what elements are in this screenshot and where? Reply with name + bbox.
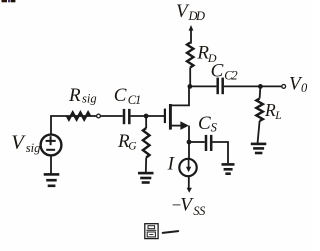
label V_sig	[11, 132, 40, 155]
node V_0 terminal	[282, 85, 286, 89]
ground V_sig	[44, 174, 60, 185]
source V_sig	[41, 135, 62, 156]
node source junction	[187, 140, 192, 145]
svg-text:C: C	[198, 113, 211, 134]
wire R_L bottom	[258, 121, 260, 144]
label R_L	[264, 100, 282, 122]
label -V_SS	[171, 195, 207, 219]
wire junction to C_C1	[100, 115, 122, 117]
node R_L junction	[258, 84, 263, 89]
transistor Q1 gate bar	[164, 109, 166, 124]
label V_0	[289, 74, 308, 96]
transistor Q1 drain lead	[170, 86, 189, 105]
node gate junction	[144, 114, 149, 119]
label C_C1	[114, 85, 140, 107]
wire C_C1 to gate	[131, 115, 165, 117]
svg-text:DD: DD	[188, 9, 206, 23]
wire C_C2 to output terminal	[224, 85, 282, 87]
wire R_G bottom	[145, 158, 147, 173]
wire R_L top	[259, 86, 262, 98]
scan artifact top-left	[2, 0, 16, 2]
svg-text:S: S	[211, 121, 218, 135]
svg-text:C: C	[114, 85, 127, 106]
wire drain node to C_C2	[189, 85, 216, 87]
wire V_sig to input wire corner	[51, 116, 97, 135]
svg-text:0: 0	[301, 81, 308, 95]
ground C_S	[222, 164, 235, 173]
transistor Q1 source lead with arrow	[170, 121, 189, 142]
svg-text:R: R	[264, 100, 276, 120]
label R_G	[117, 131, 137, 153]
svg-text:sig: sig	[82, 92, 97, 106]
transistor Q1 channel bar	[169, 104, 172, 130]
label R_sig	[68, 85, 97, 106]
capacitor C_C2	[218, 78, 223, 95]
label R_D	[196, 42, 217, 65]
svg-text:L: L	[274, 110, 281, 122]
svg-text:I: I	[167, 154, 176, 175]
label C_C2	[211, 60, 238, 82]
resistor R_G	[143, 128, 150, 158]
wire current source to -V_SS arrow	[188, 177, 190, 189]
wire R_D bottom to drain node	[189, 68, 191, 87]
capacitor C_S	[206, 135, 211, 151]
resistor R_D	[187, 43, 193, 68]
svg-text:G: G	[128, 141, 137, 153]
svg-text:SS: SS	[193, 204, 206, 218]
node drain junction	[188, 84, 193, 89]
wire source to C_S	[189, 141, 205, 143]
wire C_S to ground	[212, 142, 228, 163]
svg-text:V: V	[11, 132, 26, 154]
wire R_G top	[145, 116, 147, 128]
-V_SS supply arrowhead	[187, 188, 192, 193]
resistor R_L	[256, 99, 263, 122]
svg-text:V: V	[180, 195, 194, 216]
svg-text:sig: sig	[26, 141, 41, 155]
svg-text:C1: C1	[128, 93, 141, 107]
current source I	[179, 159, 196, 176]
VDD supply arrow	[189, 25, 194, 43]
resistor R_sig	[67, 113, 90, 120]
wire source node to current source	[188, 142, 190, 159]
node input open junction	[97, 114, 101, 118]
ground R_G	[138, 173, 154, 182]
svg-text:C2: C2	[224, 69, 237, 83]
wire V_sig bottom	[50, 156, 52, 175]
svg-text:R: R	[68, 85, 81, 106]
ground R_L	[251, 144, 266, 153]
caption 圖一 (Figure 1)	[145, 224, 178, 239]
capacitor C_C1	[124, 109, 129, 124]
label C_S	[198, 113, 218, 135]
label V_DD	[176, 1, 205, 23]
svg-text:C: C	[211, 60, 224, 81]
